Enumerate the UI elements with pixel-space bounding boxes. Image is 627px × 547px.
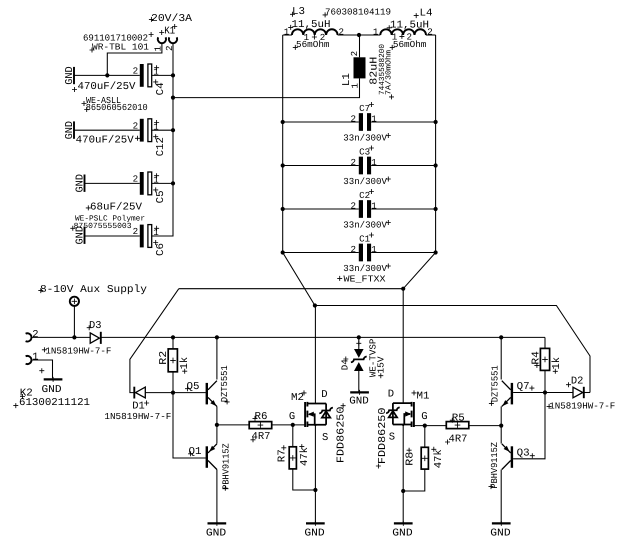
wire supply to rail — [73, 306, 75, 338]
cross at WE_FTXX — [337, 276, 342, 281]
label DZT5551 (Q5, rotated) — [219, 365, 230, 402]
wire K2 pin1 to GND — [31, 360, 53, 378]
svg-text:C12: C12 — [155, 137, 167, 156]
cross below C6 pin1 — [153, 240, 158, 245]
SECTION B: filter inductors and X-cap bank — [173, 6, 438, 305]
wire main rail corner down to R4 — [544, 337, 546, 348]
diode D3 — [90, 332, 101, 344]
capacitor C4 — [140, 64, 152, 87]
svg-text:11,5uH: 11,5uH — [292, 19, 331, 31]
SECTION E: right driver Q7/Q3, R5, R8, M1, R4, D2 — [376, 287, 615, 540]
connector K1 pin 1 socket — [158, 37, 166, 43]
cross at 56mOhm (L3) — [293, 45, 298, 50]
junction left rail C7 — [281, 120, 285, 124]
junction Q5 collector on main rail — [215, 335, 219, 339]
junction rail branch to L1 return — [171, 96, 175, 100]
svg-text:K1: K1 — [164, 26, 175, 38]
cross below DZT5551 (Q5) — [225, 399, 230, 404]
transistor Q5 (NPN) — [206, 381, 217, 407]
wire Q1 base from D1 node — [173, 393, 206, 458]
svg-text:2: 2 — [351, 157, 357, 168]
cross at 61300211121 — [13, 403, 18, 408]
cross at C7 — [369, 102, 374, 107]
cross at 68uF origin — [86, 205, 91, 210]
cross above R7 label — [281, 445, 286, 450]
cross at Q5 — [185, 386, 190, 391]
capacitor C5 — [140, 172, 152, 195]
svg-text:M1: M1 — [417, 391, 430, 403]
svg-text:2: 2 — [349, 51, 360, 57]
wire Q7 base to node — [513, 392, 545, 394]
junction M1 drain node — [401, 287, 405, 291]
wire D1 to Q5 base — [145, 392, 206, 394]
label WE-TVSP (rotated) — [367, 338, 378, 377]
ground symbol at C12 (rotated) — [64, 121, 76, 140]
ground symbol below D4 — [349, 390, 369, 407]
cross at R6 — [253, 416, 258, 421]
svg-text:D2: D2 — [571, 375, 584, 387]
junction M1 gate node — [423, 424, 427, 428]
capacitor C12 — [140, 119, 152, 142]
transistor Q3 (PNP mirrored) — [502, 444, 513, 470]
cross below DZT5551 (Q7) — [489, 401, 494, 406]
label FDD86250 (M1, rotated) — [377, 408, 389, 465]
svg-text:1: 1 — [371, 201, 377, 212]
cross at aux label — [38, 288, 43, 293]
svg-text:R8: R8 — [405, 452, 417, 466]
wire Q7 emitter to Q3 emitter — [500, 406, 502, 443]
svg-text:Q3: Q3 — [517, 448, 530, 460]
svg-text:61300211121: 61300211121 — [19, 397, 90, 409]
cross at D2 — [566, 382, 571, 387]
junction right rail C2 — [434, 207, 438, 211]
wire left rail with diagonal to M2 drain node — [283, 35, 315, 306]
ground symbol below Q1 — [206, 521, 226, 540]
svg-text:1k: 1k — [179, 357, 191, 370]
cross after 33n/300V (C1) — [386, 264, 391, 269]
junction rail at C4 row — [171, 73, 175, 77]
cross below 7A/30mOhm — [389, 94, 394, 99]
wire node to D2 anode — [545, 392, 573, 394]
wire C5 to rail — [152, 182, 173, 184]
label R8 (rotated) — [405, 452, 417, 466]
wire upper rail diag down to D1 — [130, 289, 179, 393]
cross at Q3 — [530, 453, 535, 458]
svg-text:1N5819HW-7-F: 1N5819HW-7-F — [104, 411, 171, 422]
svg-text:2: 2 — [351, 114, 357, 125]
svg-text:2: 2 — [407, 32, 413, 43]
svg-text:1: 1 — [371, 157, 377, 168]
cross above D4 label — [343, 357, 348, 362]
ground symbol below M1 — [392, 521, 412, 540]
svg-text:470uF/25V: 470uF/25V — [78, 81, 137, 93]
cross at L4 — [414, 13, 419, 18]
ground symbol at C6 (rotated) — [74, 226, 86, 245]
svg-text:1: 1 — [32, 352, 38, 364]
resistor R2 — [168, 349, 177, 372]
cross at WR-TBL 101 — [90, 48, 95, 53]
svg-text:G: G — [421, 411, 427, 423]
junction R8 / M1 source — [401, 489, 405, 493]
wire K1 pin2 rail down to C6 — [152, 44, 173, 237]
svg-text:GND: GND — [392, 528, 412, 540]
connector K2 pin 1 socket — [26, 356, 32, 364]
label R2 (rotated) — [158, 351, 170, 365]
cross at C3 — [369, 146, 374, 151]
wire GND to C4 — [74, 74, 140, 76]
cross above C6 pin1 — [154, 226, 159, 231]
svg-text:1: 1 — [284, 26, 290, 37]
svg-text:WE_FTXX: WE_FTXX — [344, 273, 387, 284]
svg-text:47k: 47k — [299, 447, 311, 466]
cross at D3 — [87, 325, 92, 330]
mosfet M2 (FDD86250) — [305, 402, 333, 427]
svg-text:DZT5551: DZT5551 — [489, 365, 500, 402]
wire M2 drain — [314, 306, 316, 404]
cross at M2 — [302, 390, 307, 395]
label C5 (rotated) — [155, 190, 167, 203]
cross above C4 pin1 — [154, 65, 159, 70]
value 1k (R4, rotated) — [551, 357, 563, 370]
wire right rail with diagonal to M1 drain node — [403, 35, 435, 289]
svg-text:1: 1 — [392, 32, 398, 43]
label 74435588200 (rotated) — [378, 44, 387, 95]
label C12 (rotated) — [155, 137, 167, 156]
cross below 1k (R4) — [553, 369, 558, 374]
svg-text:R4: R4 — [530, 351, 542, 365]
cross at 11,5uH (L3) — [288, 25, 293, 30]
junction M2 drain node — [313, 303, 317, 307]
cross at L3 — [290, 12, 295, 17]
connector K1 pin 2 socket — [169, 37, 177, 43]
junction left rail C3 — [281, 163, 285, 167]
cross at Q1 — [188, 451, 193, 456]
svg-text:S: S — [389, 432, 395, 444]
wire R2 to D1 row — [172, 372, 174, 393]
svg-text:R2: R2 — [158, 351, 170, 365]
resistor R5 — [446, 422, 469, 429]
svg-text:R6: R6 — [255, 411, 268, 423]
svg-text:2: 2 — [133, 120, 139, 131]
cross after 33n/300V (C3) — [386, 177, 391, 182]
svg-text:GND: GND — [42, 384, 62, 396]
svg-text:11,5uH: 11,5uH — [390, 19, 429, 31]
svg-text:GND: GND — [304, 528, 324, 540]
svg-text:C7: C7 — [359, 103, 370, 114]
label FDD86250 (M2, rotated) — [336, 407, 348, 464]
cross at 56mOhm (L4) — [390, 45, 395, 50]
wire GND to C5 — [85, 182, 140, 184]
cross below C12 pin1 — [153, 134, 158, 139]
wire node down to L1 pin2 — [359, 35, 361, 57]
junction rail at C5 row — [171, 181, 175, 185]
cross at 11,5uH (L4) — [387, 25, 392, 30]
svg-text:D4: D4 — [340, 359, 351, 370]
cross after 33n/300V (C7) — [386, 133, 391, 138]
svg-text:L3: L3 — [292, 6, 305, 18]
cross at 760308104119 — [323, 12, 328, 17]
capacitor C2 — [283, 200, 436, 218]
cross below PBHV9115Z (Q1) — [223, 486, 228, 491]
svg-text:FDD86250: FDD86250 — [336, 407, 348, 464]
cross above 47k (R7) — [299, 444, 304, 449]
junction Q7/Q3 emitters — [499, 424, 503, 428]
svg-text:1: 1 — [371, 244, 377, 255]
svg-text:C2: C2 — [359, 190, 370, 201]
wire Q1 collector to GND — [216, 470, 218, 524]
svg-text:1N5819HW-7-F: 1N5819HW-7-F — [45, 346, 111, 357]
svg-text:470uF/25V: 470uF/25V — [76, 134, 135, 146]
junction R2 bottom / D1 row — [171, 391, 175, 395]
cross at 470uF origin — [72, 87, 77, 92]
wire gate node to R8 — [424, 426, 426, 448]
inductor L3 — [292, 29, 338, 35]
svg-text:GND: GND — [206, 528, 226, 540]
cross at 1N5819HW-7-F (D3) — [42, 347, 47, 352]
svg-text:2: 2 — [320, 32, 326, 43]
wire M1 gate to gate node — [414, 425, 446, 427]
cross below 1k (R2) — [182, 369, 187, 374]
cross above 47k (R8) — [431, 447, 436, 452]
junction Q7 collector on main rail — [499, 335, 503, 339]
svg-text:2: 2 — [133, 174, 139, 185]
L1 pin 1 (rotated) — [349, 83, 360, 89]
value 47k (R8, rotated) — [433, 449, 445, 468]
svg-text:PBHV9115Z: PBHV9115Z — [220, 443, 231, 490]
resistor R4 — [540, 348, 549, 370]
wire C4 to rail — [152, 74, 173, 76]
svg-text:R7: R7 — [276, 449, 288, 462]
svg-text:C4: C4 — [155, 82, 167, 95]
svg-text:8-10V Aux Supply: 8-10V Aux Supply — [40, 284, 147, 296]
upper rail horizontal — [179, 288, 403, 290]
cross after 33n/300V (C2) — [386, 220, 391, 225]
wire K1 pin1 down-left to C4 node — [107, 44, 162, 76]
junction R2 top on main rail — [171, 335, 175, 339]
capacitor C6 — [140, 225, 152, 248]
svg-text:1: 1 — [373, 26, 379, 37]
svg-text:2: 2 — [427, 26, 433, 37]
inductor L1 body — [354, 57, 366, 78]
svg-text:FDD86250: FDD86250 — [377, 408, 389, 465]
cross below PBHV9115Z (Q3) — [489, 484, 494, 489]
cross at 20V/3A origin — [149, 17, 154, 22]
cross right of K1 — [172, 24, 177, 29]
svg-text:7A/30mOhm: 7A/30mOhm — [385, 50, 394, 95]
wire D2 cathode to corner — [584, 392, 590, 394]
cross at C2 — [369, 189, 374, 194]
svg-text:1k: 1k — [551, 357, 563, 370]
capacitor C3 — [283, 157, 436, 175]
wire emitter node to R6 — [217, 424, 249, 426]
ground symbol below M2 — [304, 521, 324, 540]
svg-text:4R7: 4R7 — [252, 431, 271, 443]
capacitor C1 — [283, 244, 436, 262]
svg-text:2: 2 — [133, 66, 139, 77]
svg-text:L4: L4 — [420, 8, 433, 20]
svg-text:S: S — [322, 432, 328, 444]
aux supply symbol — [70, 297, 79, 306]
wire rail to Q7 collector — [500, 337, 502, 379]
svg-text:GND: GND — [349, 395, 369, 407]
label D4 (rotated) — [340, 359, 351, 370]
K1 pin number 1 — [153, 46, 164, 52]
junction D4 on main rail — [357, 335, 361, 339]
SECTION C: aux supply, K2, D3, D1, R2 — [13, 284, 545, 458]
value 1k (R2, rotated) — [179, 357, 191, 370]
L1 pin 2 (rotated) — [349, 51, 360, 57]
diode D1 — [134, 387, 145, 399]
svg-text:15V: 15V — [376, 356, 387, 373]
cross after 691101710002 — [149, 32, 154, 37]
ground symbol at C4 (rotated) — [64, 66, 76, 85]
wire rail to R2 — [172, 337, 174, 349]
wire M1 drain — [402, 289, 404, 403]
label 7A/30mOhm (rotated) — [385, 50, 394, 95]
cross at M1 — [412, 390, 417, 395]
svg-text:C1: C1 — [359, 233, 370, 244]
transistor Q7 (NPN mirrored) — [502, 381, 513, 407]
svg-text:DZT5551: DZT5551 — [219, 365, 230, 402]
wire Q3 collector to GND — [500, 470, 502, 524]
svg-text:2: 2 — [351, 244, 357, 255]
svg-text:G: G — [289, 411, 295, 423]
svg-text:D3: D3 — [89, 320, 102, 332]
cross after 470uF/25V (C12) — [135, 136, 140, 141]
label L1 (rotated) — [341, 73, 353, 86]
label R7 (rotated) — [276, 449, 288, 462]
capacitor C7 — [283, 113, 436, 131]
junction rail at C12 row — [171, 128, 175, 132]
junction emitters / R6 — [215, 423, 219, 427]
ground symbol at C5 (rotated) — [74, 174, 86, 193]
svg-text:C6: C6 — [155, 243, 167, 256]
junction left rail C1 — [281, 250, 285, 254]
ground symbol below Q3 — [490, 521, 510, 540]
cross above FDD86250 (M2) — [341, 403, 346, 408]
label DZT5551 (Q7, rotated) — [489, 365, 500, 402]
svg-text:47k: 47k — [433, 449, 445, 468]
svg-text:C5: C5 — [155, 190, 167, 203]
wire GND to C6 — [85, 235, 140, 237]
wire Q5 emitter to Q1 emitter — [216, 406, 218, 443]
label PBHV9115Z (Q3, rotated) — [489, 442, 500, 489]
value 82uH (rotated) — [369, 57, 381, 85]
cross at 4R7 (R6) — [251, 437, 256, 442]
svg-text:1: 1 — [371, 114, 377, 125]
diode D2 — [573, 387, 584, 398]
junction M2 gate node — [291, 423, 295, 427]
svg-text:33n/300V: 33n/300V — [343, 133, 387, 144]
svg-text:33n/300V: 33n/300V — [343, 220, 387, 231]
svg-text:33n/300V: 33n/300V — [343, 176, 387, 187]
svg-text:1: 1 — [304, 32, 310, 43]
ground symbol at K2 — [42, 377, 63, 396]
label R4 (rotated) — [530, 351, 542, 365]
wire K2 pin2 to D3 — [31, 336, 91, 338]
svg-text:M2: M2 — [291, 392, 304, 404]
wire Q3 base to node column — [513, 393, 545, 459]
cross above C5 pin1 — [154, 173, 159, 178]
cross on D4 wire — [356, 341, 361, 346]
cross below FDD86250 (M1) — [376, 464, 381, 469]
main rail D3 to R4 corner — [101, 336, 545, 338]
svg-text:20V/3A: 20V/3A — [151, 13, 193, 25]
resistor R6 — [249, 422, 272, 429]
cross below 15V — [378, 373, 383, 378]
svg-text:GND: GND — [74, 226, 86, 245]
svg-text:D: D — [388, 389, 394, 401]
svg-text:68uF/25V: 68uF/25V — [90, 202, 143, 214]
wire M1 source to GND — [402, 425, 404, 524]
wire GND to C12 — [74, 129, 140, 131]
mosfet M1 (FDD86250) — [386, 402, 414, 427]
junction supply / K2 rail — [72, 335, 76, 339]
resistor R8 — [421, 447, 428, 469]
svg-text:GND: GND — [490, 528, 510, 540]
svg-text:Q7: Q7 — [517, 381, 530, 393]
transistor Q1 (PNP) — [206, 444, 217, 470]
label C4 (rotated) — [155, 82, 167, 95]
junction right rail C3 — [434, 163, 438, 167]
label C6 (rotated) — [155, 243, 167, 256]
wire rail to Q5 collector — [216, 337, 218, 379]
wire R7 to M2 source column — [293, 469, 316, 490]
svg-text:2: 2 — [32, 329, 38, 341]
cross at WE-ASLL — [82, 101, 87, 106]
diode D4 (TVS) — [351, 337, 367, 392]
svg-text:PBHV9115Z: PBHV9115Z — [489, 442, 500, 489]
cross at D1 — [144, 401, 149, 406]
junction R7 / M2 source — [313, 488, 317, 492]
cross at 875075555003 — [70, 226, 75, 231]
inductor L4 — [380, 29, 426, 35]
wire M2 source to GND — [314, 425, 316, 523]
label PBHV9115Z (Q1, rotated) — [220, 443, 231, 490]
wire R4 to base node — [544, 370, 546, 392]
junction K1 pin1 / C4 wire — [105, 73, 109, 77]
SECTION A: input connector and bulk capacitors — [64, 13, 193, 256]
cross below C4 pin1 — [153, 79, 158, 84]
wire R8 to M1 source column — [403, 469, 425, 491]
svg-text:R5: R5 — [452, 413, 465, 425]
wire R6 to M2 gate — [272, 424, 305, 426]
svg-text:WR-TBL 101: WR-TBL 101 — [92, 42, 149, 53]
cross K2 origin — [39, 368, 44, 373]
cross at 1N5819HW-7-F (D2) — [547, 404, 552, 409]
value 15V (rotated) — [376, 356, 387, 373]
connector K2 pin 2 socket — [26, 333, 32, 341]
svg-text:D: D — [321, 389, 327, 401]
cross at C1 — [369, 233, 374, 238]
svg-text:2: 2 — [133, 226, 139, 237]
cross left of K1 — [159, 30, 164, 35]
resistor R7 — [289, 447, 296, 469]
cross at Q7 — [529, 386, 534, 391]
junction right rail C1 — [434, 250, 438, 254]
wire R5 to emitter node — [469, 425, 501, 427]
svg-text:L1: L1 — [341, 73, 353, 86]
cross below R4 label — [534, 363, 539, 368]
svg-text:Q5: Q5 — [187, 381, 200, 393]
wire L4 to right corner — [426, 34, 436, 36]
wire L3 to L4 with center tap — [338, 34, 381, 36]
junction R4 / Q7 base / D2 — [543, 390, 547, 394]
wire C4-node to L1 bottom — [173, 78, 360, 97]
value 47k (R7, rotated) — [299, 447, 311, 466]
cross above R8 label — [407, 448, 412, 453]
wire C12 to rail — [152, 129, 173, 131]
